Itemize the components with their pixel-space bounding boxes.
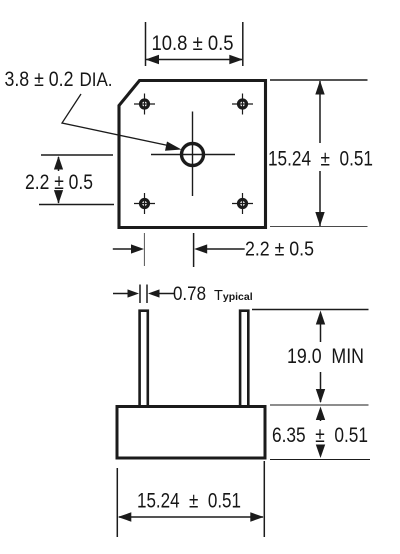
package body (side view) <box>117 407 265 459</box>
pin hole top-left <box>134 94 155 115</box>
dimension 6.35 ± 0.51 (body height) <box>270 405 370 460</box>
svg-text:6.35 ± 0.51: 6.35 ± 0.51 <box>272 424 368 447</box>
right lead <box>240 311 248 407</box>
dimension 2.2 ± 0.5 (left side) <box>25 155 114 205</box>
dimension 2.2 ± 0.5 (bottom of top view) <box>113 233 314 267</box>
svg-text:2.2 ± 0.5: 2.2 ± 0.5 <box>245 239 314 261</box>
pin hole bottom-right <box>232 193 253 214</box>
mounting hole <box>182 144 204 166</box>
svg-text:19.0 MIN: 19.0 MIN <box>287 345 364 368</box>
dimension 10.8 ± 0.5 (top) <box>146 22 243 66</box>
svg-text:Typical: Typical <box>214 288 253 304</box>
svg-text:10.8 ± 0.5: 10.8 ± 0.5 <box>152 32 234 55</box>
svg-text:2.2 ± 0.5: 2.2 ± 0.5 <box>25 171 93 194</box>
dimension 0.78 Typical (lead width) <box>113 284 253 305</box>
svg-text:15.24 ± 0.51: 15.24 ± 0.51 <box>137 490 241 513</box>
leader label 3.8 ± 0.2 DIA. <box>5 68 182 151</box>
left lead <box>140 311 148 407</box>
svg-text:DIA.: DIA. <box>80 70 113 91</box>
package outline (top view) <box>119 81 266 228</box>
dimension 15.24 ± 0.51 (body width, side view) <box>117 461 264 537</box>
dimension 15.24 ± 0.51 (right side of top view) <box>268 80 373 227</box>
pin hole bottom-left <box>134 193 155 214</box>
pin hole top-right <box>232 94 253 115</box>
svg-text:3.8 ± 0.2: 3.8 ± 0.2 <box>5 68 74 91</box>
dimension 19.0 MIN (lead length) <box>252 310 369 404</box>
svg-text:15.24 ± 0.51: 15.24 ± 0.51 <box>268 148 373 171</box>
svg-text:0.78: 0.78 <box>173 284 206 305</box>
mounting hole crosshair <box>151 112 235 197</box>
